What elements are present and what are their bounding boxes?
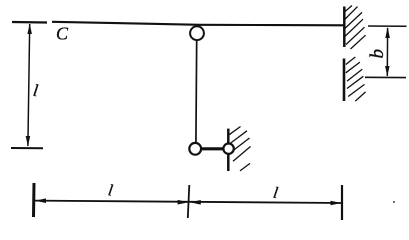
svg-text:b: b [367, 49, 388, 59]
svg-text:C: C [56, 24, 69, 44]
